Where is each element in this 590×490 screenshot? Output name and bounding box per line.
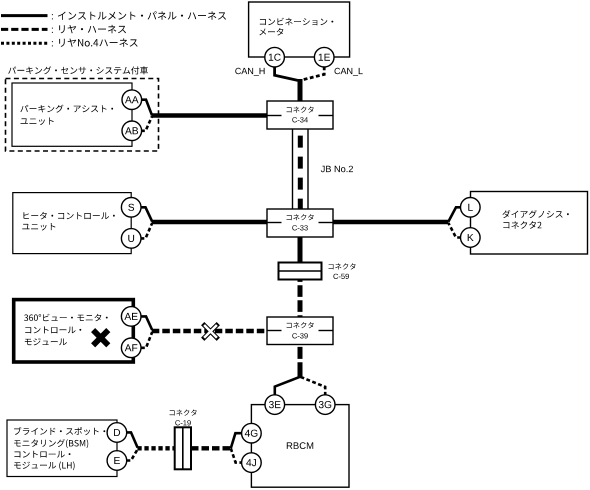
wire AA to junction (instrument panel harness): [141, 100, 152, 116]
text pin label AA: [125, 96, 139, 103]
terminal AF: [121, 338, 141, 358]
parking assist unit box: [12, 83, 132, 146]
wire E to junction (dashed): [127, 449, 138, 460]
text label RBCM: [287, 442, 313, 449]
terminal 4G: [242, 423, 262, 443]
terminal AA: [122, 90, 142, 110]
text diag line2: [503, 221, 541, 229]
diagnosis connector 2 box: [471, 192, 588, 255]
C-33 right pass-through stub: [319, 222, 334, 224]
text label C-33: [292, 225, 308, 230]
text pin label AF: [125, 344, 138, 351]
text pin label AB: [125, 127, 138, 134]
text v360 line2: [25, 326, 81, 333]
terminal K: [461, 228, 481, 248]
legend rear-No.4-harness sample line: [1, 42, 48, 45]
C-19 divider line: [182, 427, 184, 469]
text heater line2: [22, 223, 55, 231]
wire parking junction to connector C-34: [152, 113, 268, 117]
C-39 right pass-through stub: [319, 330, 334, 332]
wire K to junction (dashed): [448, 223, 461, 238]
terminal 3G: [315, 395, 335, 415]
wire AB to junction (rear No.4 harness, dashed): [141, 116, 152, 130]
text bsm line2: [14, 439, 88, 448]
text legend2 label: [59, 25, 126, 33]
text parking system caption: [8, 66, 148, 74]
text legend colon 1: [52, 14, 53, 19]
legend rear-harness sample line: [1, 28, 48, 31]
wire C-33 down to C-59: [298, 237, 303, 263]
junction stub above RBCM split: [298, 371, 303, 378]
not-equipped X mark inside module: [93, 330, 108, 345]
text label C-39: [292, 333, 308, 338]
text parking unit line1: [20, 105, 113, 113]
wire C-39 down to RBCM junction (rear harness, dashed): [298, 345, 303, 375]
text label CAN_H: [235, 68, 264, 76]
wire AE to junction: [141, 316, 152, 330]
text pin label U: [128, 235, 134, 242]
wire D to junction: [127, 432, 138, 447]
text label C-34: [292, 117, 308, 122]
wire inside JB No.2 (rear harness, dashed): [298, 129, 303, 209]
text C-19 label jp: [170, 410, 197, 416]
JB No.2 channel right wall: [307, 129, 309, 209]
text label C-19: [175, 420, 191, 425]
text legend3 label: [59, 38, 137, 46]
C-34 left pass-through stub: [267, 115, 282, 117]
text heater line1: [24, 212, 115, 220]
text legend1 label: [58, 11, 226, 19]
wire 360 junction to connector C-39 (rear harness, dashed): [152, 329, 267, 333]
text C-34 label jp: [287, 107, 314, 113]
text pin label 3E: [269, 401, 281, 408]
wire U to junction (dashed): [141, 223, 153, 238]
text parking unit line2: [21, 118, 54, 126]
wire 1E CAN_L to junction (dashed): [301, 67, 324, 81]
text bsm line4: [14, 461, 75, 470]
parking sensor system dashed enclosure: [6, 79, 159, 152]
text C-39 label jp: [287, 322, 314, 328]
text pin label 1C: [269, 54, 281, 61]
connector C-19 box: [175, 427, 191, 469]
wire junction to 3G (dashed): [301, 377, 326, 395]
terminal 1E: [314, 47, 334, 67]
terminal 4J: [242, 453, 262, 473]
text legend colon 2: [52, 28, 53, 33]
terminal AB: [122, 121, 142, 141]
text v360 line3: [25, 338, 67, 345]
wire heater junction to connector C-33: [152, 220, 267, 224]
combination meter box: [249, 2, 350, 57]
legend instrument-panel-harness sample line: [1, 14, 48, 17]
wire C-19 to RBCM junction (rear harness, dashed): [191, 446, 231, 450]
terminal E: [107, 451, 127, 471]
wire S to junction: [141, 207, 153, 221]
text pin label D: [114, 429, 120, 436]
terminal L: [461, 198, 481, 218]
text pin label 4J: [246, 459, 256, 466]
wire junction to 4J (dashed): [231, 448, 242, 462]
blind spot monitoring module box: [7, 420, 117, 477]
text pin label E: [114, 457, 120, 464]
connector C-39 box: [267, 317, 333, 345]
text C-33 label jp: [287, 214, 314, 220]
terminal AE: [121, 307, 141, 327]
360 view monitor control module box: [14, 300, 134, 362]
terminal U: [121, 229, 141, 249]
wire C-33 to diagnosis junction: [333, 220, 449, 224]
text pin label S: [128, 204, 134, 211]
connector C-33 box: [267, 209, 333, 237]
text v360 line1: [24, 314, 108, 322]
C-39 left pass-through stub: [267, 330, 282, 332]
wire BSM junction to C-19 (rear No.4 harness, dotted): [137, 446, 174, 450]
text pin label 4G: [245, 430, 258, 437]
RBCM box: [251, 405, 349, 488]
text C-59 label jp: [329, 263, 356, 269]
text bsm line1: [14, 427, 105, 435]
heater control unit box: [13, 193, 131, 254]
wire junction to 4G: [231, 433, 242, 448]
connector C-59 box: [279, 263, 322, 280]
wire C-59 down to C-39 (rear harness, dashed): [298, 280, 303, 318]
text pin label 1E: [319, 54, 330, 61]
text pin label K: [468, 234, 474, 241]
C-34 right pass-through stub: [319, 115, 334, 117]
text label JB No.2: [321, 166, 353, 173]
terminal D: [107, 423, 127, 443]
text meter line2: [259, 28, 283, 36]
text bsm line3: [14, 451, 70, 458]
wire L to junction: [448, 207, 461, 221]
text label CAN_L: [335, 68, 363, 76]
connector C-34 box: [267, 101, 333, 129]
text pin label 3G: [319, 401, 331, 408]
text label C-59: [333, 274, 349, 279]
text pin label L: [468, 204, 473, 211]
text meter line1: [260, 18, 334, 26]
wire 1C CAN_H to junction: [275, 67, 299, 81]
terminal S: [121, 198, 141, 218]
terminal 1C: [265, 47, 285, 67]
text pin label AE: [124, 313, 137, 320]
wire meter junction down to C-34: [298, 79, 303, 101]
C-33 left pass-through stub: [267, 222, 282, 224]
text diag line1: [502, 210, 568, 218]
wire junction to 3E: [275, 377, 301, 396]
text legend colon 3: [52, 41, 53, 46]
JB No.2 channel left wall: [292, 129, 294, 209]
abandoned-circuit X mark on wire: [203, 324, 219, 340]
wire AF to junction (dashed): [141, 332, 152, 348]
C-59 divider line: [279, 270, 322, 272]
terminal 3E: [265, 395, 285, 415]
